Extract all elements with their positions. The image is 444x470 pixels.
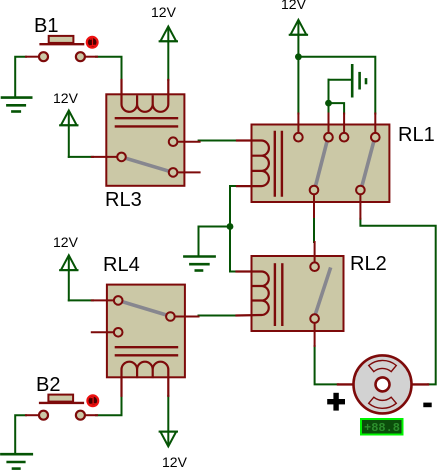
ground (rotated, right of RL1 top) [329,65,367,96]
label RL3 [105,189,142,212]
label 12V (below RL4) [162,454,187,470]
label RL2 [350,253,387,276]
label B2 [36,374,60,397]
label B1 [34,15,58,38]
wire B1 left terminal to ground [15,57,26,97]
wire junction to RL1 pin 3 [329,103,345,113]
relay RL2 [237,242,344,346]
wire B1 right terminal to RL3 coil pin [96,57,122,80]
wire ground lead down to RL1 pin 2 [328,80,330,114]
label + (motor positive) [327,393,345,411]
display value +88.8 [364,421,400,435]
wire RL4 coil left to B2 right terminal [96,396,122,415]
motor M1 [338,355,428,413]
node junction (relay coil / ground net) [227,223,234,230]
wire RL3 NC contact to RL1 coil top [199,140,237,142]
wire RL4 NO contact to RL2 coil bottom [199,315,239,317]
motor speed display [361,419,403,435]
wire junction to middle ground [199,227,231,256]
power +12V (arrow down, below RL4) [160,396,177,447]
node junction (ground net) [325,100,332,107]
wire 12V rail to RL1 pin 4 [298,57,375,114]
power +12V (above RL3) [160,27,177,81]
wire RL1 coil bottom to junction to RL2 coil top [230,186,237,272]
power +12V (top, above RL1) [290,20,307,114]
label - (motor negative) [423,403,431,408]
relay RL4 [92,285,199,396]
power +12V (left of RL3) [60,111,93,157]
wire RL1 pole 1 down to RL2 contact [313,217,315,242]
ground (below B2) [1,454,31,468]
button B1 [26,36,98,61]
ground (middle, below junction) [184,257,214,271]
label 12V (top, above RL1) [281,0,306,12]
button B2 [26,395,98,420]
wire RL2 pole bottom to motor positive [315,346,338,384]
relay RL3 [92,80,200,186]
ground (below B1) [2,98,31,112]
node junction on 12V rail [295,53,302,60]
power +12V (left of RL4) [60,255,93,300]
relay RL1 [237,114,389,219]
label 12V (left of RL3) [53,90,78,106]
label RL1 [398,124,435,147]
label RL4 [103,254,140,277]
wire RL1 pole 2 to motor negative [360,219,435,385]
wire B2 left terminal to ground [15,415,26,453]
label 12V (left of RL4) [53,234,78,250]
label 12V (above RL3) [151,4,176,20]
